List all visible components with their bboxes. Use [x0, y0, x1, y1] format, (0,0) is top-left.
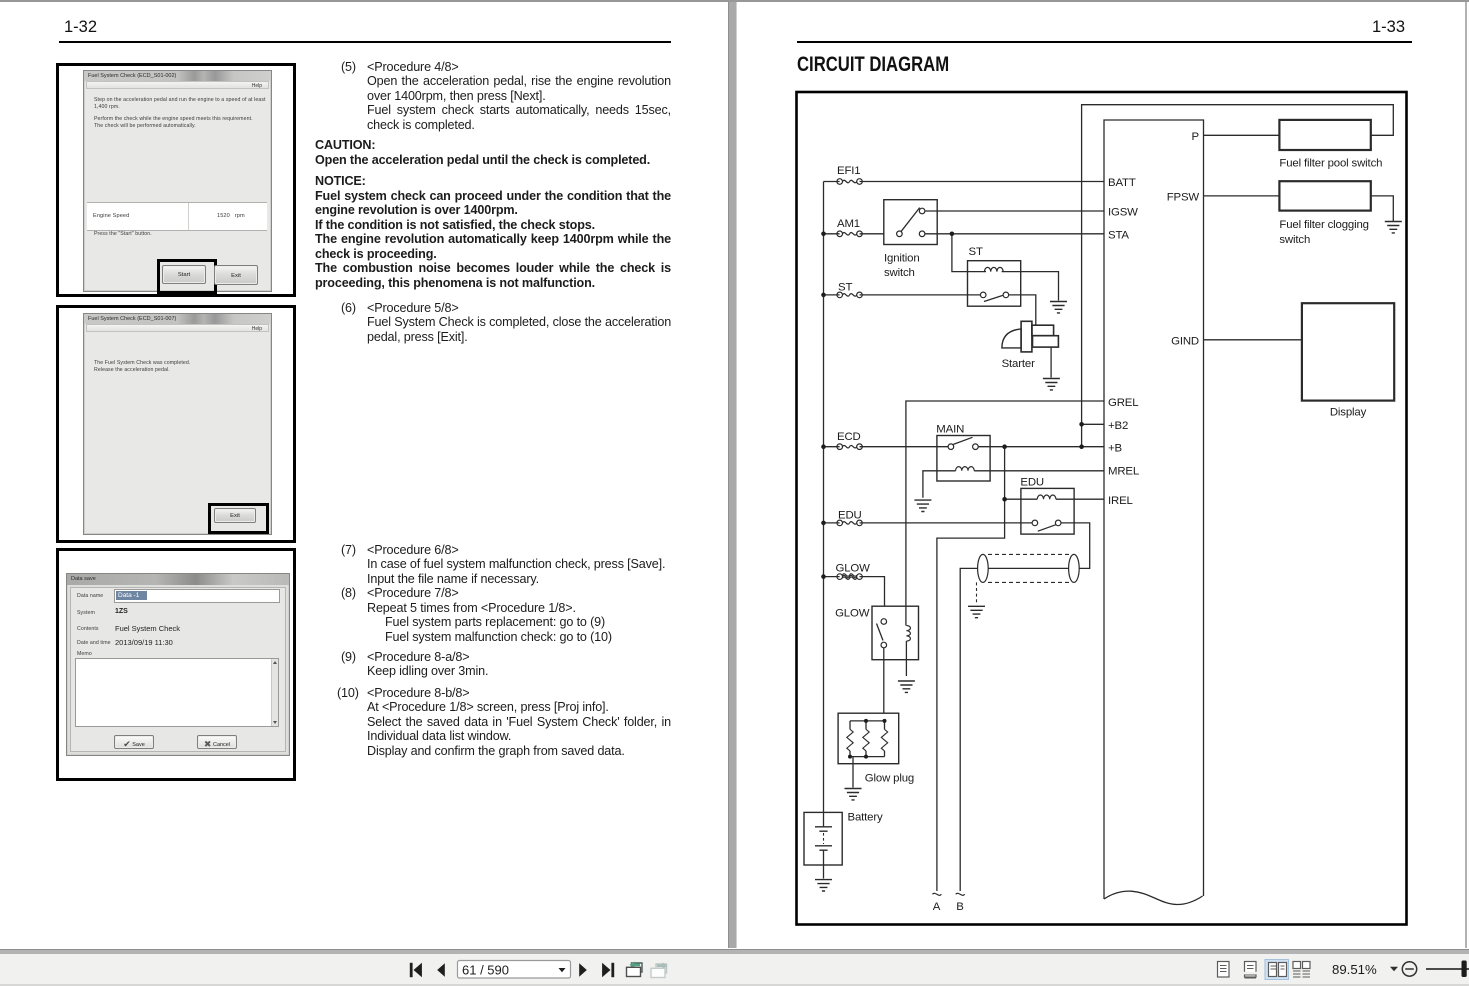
svg-text:Fuel filter pool switch: Fuel filter pool switch — [1279, 158, 1382, 170]
svg-text:Starter: Starter — [1002, 358, 1035, 370]
svg-text:EDU: EDU — [1020, 477, 1044, 489]
svg-text:STA: STA — [1108, 230, 1129, 242]
svg-text:+B2: +B2 — [1108, 420, 1128, 432]
svg-text:ECD: ECD — [837, 431, 861, 443]
svg-text:Glow plug: Glow plug — [865, 773, 914, 785]
svg-text:GLOW: GLOW — [836, 563, 871, 575]
svg-text:Ignition: Ignition — [884, 253, 920, 265]
svg-text:IREL: IREL — [1108, 495, 1133, 507]
svg-text:Display: Display — [1330, 407, 1367, 419]
svg-text:B: B — [956, 901, 963, 913]
svg-text:EFI1: EFI1 — [837, 165, 860, 177]
svg-text:BATT: BATT — [1108, 177, 1136, 189]
svg-text:AM1: AM1 — [837, 218, 860, 230]
svg-text:MREL: MREL — [1108, 466, 1139, 478]
svg-text:89.51%: 89.51% — [1332, 962, 1377, 977]
svg-text:FPSW: FPSW — [1167, 192, 1200, 204]
svg-text:IGSW: IGSW — [1108, 207, 1138, 219]
svg-text:GLOW: GLOW — [835, 608, 870, 620]
svg-text:switch: switch — [1279, 234, 1310, 246]
svg-text:61 / 590: 61 / 590 — [462, 963, 509, 978]
svg-text:switch: switch — [884, 267, 915, 279]
svg-text:P: P — [1192, 131, 1199, 143]
svg-text:ST: ST — [969, 246, 983, 258]
svg-text:EDU: EDU — [838, 510, 862, 522]
svg-text:Battery: Battery — [848, 812, 883, 824]
svg-text:+B: +B — [1108, 443, 1122, 455]
svg-text:A: A — [933, 901, 941, 913]
svg-text:GREL: GREL — [1108, 397, 1138, 409]
svg-text:ST: ST — [838, 282, 852, 294]
svg-text:Fuel filter clogging: Fuel filter clogging — [1279, 219, 1368, 231]
svg-text:MAIN: MAIN — [936, 424, 964, 436]
svg-text:GIND: GIND — [1171, 336, 1199, 348]
